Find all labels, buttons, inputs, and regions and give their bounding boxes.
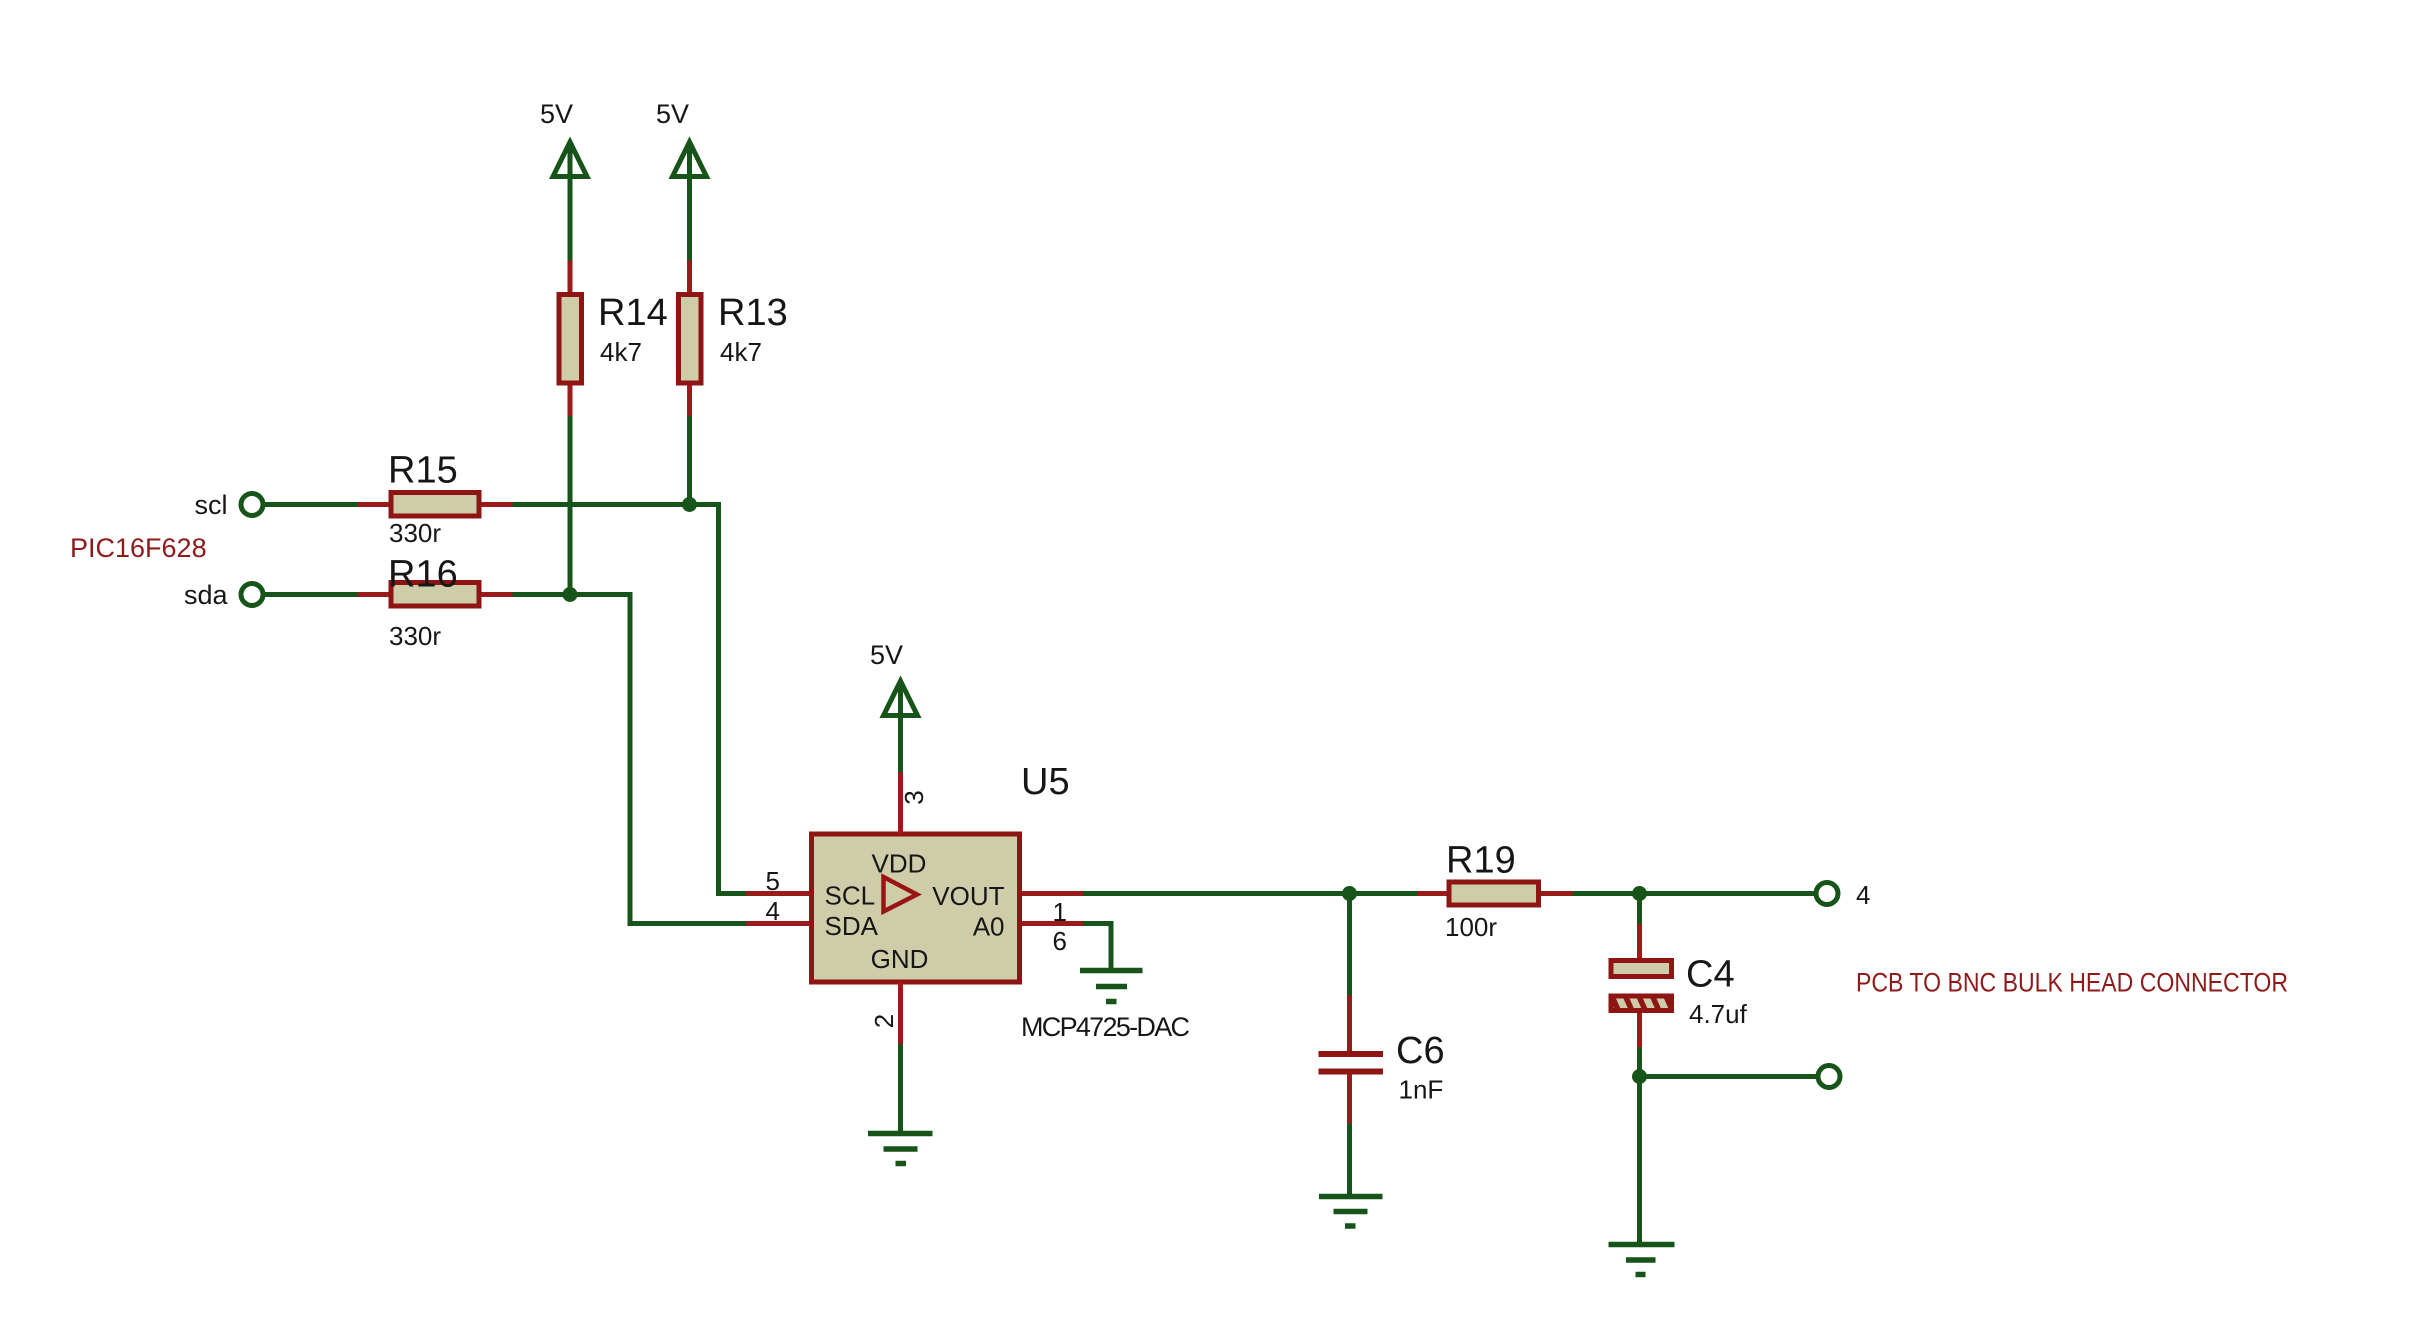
svg-text:R16: R16 xyxy=(388,554,458,596)
resistor R14 bottom pin xyxy=(568,386,573,417)
wire junction to C4 xyxy=(1637,894,1642,925)
capacitor C6 bottom pin xyxy=(1347,1075,1352,1124)
resistor R19 left pin xyxy=(1417,891,1447,896)
svg-text:2: 2 xyxy=(869,1014,899,1028)
node scl junction xyxy=(682,497,697,512)
svg-text:4: 4 xyxy=(766,896,780,926)
capacitor C6 xyxy=(1319,1054,1384,1072)
terminal scl xyxy=(241,494,263,516)
wire node to terminal (BNC shield) xyxy=(1640,1074,1819,1079)
node R19/C4 junction xyxy=(1632,886,1647,901)
svg-text:5V: 5V xyxy=(656,99,689,129)
power 5V symbol P1 (above R14) xyxy=(553,142,587,261)
svg-text:R14: R14 xyxy=(598,292,668,334)
svg-text:R13: R13 xyxy=(718,292,788,334)
resistor R16 left pin xyxy=(358,592,390,597)
wire VOUT to R19 xyxy=(1083,891,1417,896)
ground (U5 GND) xyxy=(868,1134,933,1164)
capacitor C6 top pin xyxy=(1347,996,1352,1052)
resistor R15 right pin xyxy=(482,502,513,507)
wire A0 to ground xyxy=(1083,924,1111,969)
svg-text:4.7uf: 4.7uf xyxy=(1689,999,1748,1029)
wire U5 GND pin to ground xyxy=(898,1045,903,1134)
svg-text:4k7: 4k7 xyxy=(720,337,762,367)
wire sda terminal to R16 xyxy=(264,592,358,597)
wire C6 to ground xyxy=(1347,1124,1352,1197)
node C4/terminal junction xyxy=(1632,1069,1647,1084)
resistor R13 xyxy=(679,295,702,384)
node VOUT/C6 junction xyxy=(1342,886,1357,901)
wire R13 to scl node xyxy=(687,416,692,505)
resistor R13 top pin xyxy=(687,261,692,294)
svg-text:6: 6 xyxy=(1053,926,1067,956)
wire node to ground xyxy=(1637,1077,1642,1245)
power 5V symbol P3 (above U5) xyxy=(884,681,918,772)
op-amp U5 body xyxy=(812,834,1020,982)
resistor R15 left pin xyxy=(358,502,390,507)
U5 pin 6 (A0) xyxy=(1022,921,1083,926)
resistor R13 bottom pin xyxy=(687,386,692,417)
wire scl net to U5 SCL xyxy=(513,505,747,894)
svg-text:SDA: SDA xyxy=(825,911,879,941)
resistor R15 xyxy=(391,493,479,517)
terminal 4 (BNC signal) xyxy=(1816,883,1838,905)
resistor R19 right pin xyxy=(1541,891,1573,896)
capacitor C4 positive plate xyxy=(1611,961,1672,977)
power 5V symbol P2 (above R13) xyxy=(673,142,707,261)
svg-text:PCB TO BNC BULK HEAD CONNECTOR: PCB TO BNC BULK HEAD CONNECTOR xyxy=(1856,968,2288,998)
capacitor C4 negative plate (hatched) xyxy=(1611,996,1672,1011)
svg-text:VDD: VDD xyxy=(872,849,927,879)
wire R14 to sda node xyxy=(568,416,573,595)
terminal (BNC shield) xyxy=(1818,1066,1840,1088)
svg-text:scl: scl xyxy=(195,490,228,520)
wire R19 to terminal 4 xyxy=(1573,891,1816,896)
U5 pin 5 (SCL) xyxy=(746,891,809,896)
wire scl terminal to R15 xyxy=(264,502,358,507)
svg-text:4: 4 xyxy=(1856,880,1870,910)
resistor R14 xyxy=(559,295,582,384)
svg-text:5V: 5V xyxy=(870,640,903,670)
wire junction to C6 xyxy=(1347,894,1352,996)
svg-text:3: 3 xyxy=(899,790,929,804)
svg-text:PIC16F628: PIC16F628 xyxy=(70,533,207,563)
ground (C6) xyxy=(1319,1197,1383,1227)
wire C4 to output node xyxy=(1637,1047,1642,1077)
svg-text:A0: A0 xyxy=(973,912,1005,942)
svg-text:sda: sda xyxy=(184,580,229,610)
svg-text:330r: 330r xyxy=(389,621,441,651)
svg-text:5: 5 xyxy=(766,866,780,896)
node sda junction xyxy=(563,587,578,602)
svg-text:5V: 5V xyxy=(540,99,573,129)
U5 buffer triangle xyxy=(884,877,918,912)
svg-text:R19: R19 xyxy=(1446,840,1516,882)
resistor R16 right pin xyxy=(482,592,513,597)
U5 pin 2 (GND) xyxy=(898,982,903,1045)
svg-text:C4: C4 xyxy=(1686,954,1735,996)
terminal sda xyxy=(241,584,263,606)
svg-text:4k7: 4k7 xyxy=(600,337,642,367)
svg-text:GND: GND xyxy=(871,944,929,974)
svg-text:MCP4725-DAC: MCP4725-DAC xyxy=(1021,1012,1190,1042)
U5 pin 3 (VDD) xyxy=(898,772,903,834)
resistor R19 xyxy=(1449,882,1539,905)
resistor R14 top pin xyxy=(568,261,573,294)
svg-text:R15: R15 xyxy=(388,450,458,492)
capacitor C4 bottom pin xyxy=(1637,1013,1642,1047)
svg-text:1nF: 1nF xyxy=(1399,1075,1444,1105)
svg-text:100r: 100r xyxy=(1445,912,1497,942)
svg-text:SCL: SCL xyxy=(825,881,876,911)
U5 pin 4 (SDA) xyxy=(746,921,809,926)
capacitor C4 top pin xyxy=(1637,924,1642,959)
svg-text:330r: 330r xyxy=(389,518,441,548)
ground (A0) xyxy=(1080,971,1143,1002)
svg-text:C6: C6 xyxy=(1396,1030,1445,1072)
wire sda net to U5 SDA xyxy=(513,595,747,924)
ground (C4) xyxy=(1609,1245,1675,1275)
resistor R16 xyxy=(391,583,479,607)
svg-text:U5: U5 xyxy=(1021,761,1070,803)
U5 pin 1 (VOUT) xyxy=(1022,891,1083,896)
svg-text:VOUT: VOUT xyxy=(932,881,1004,911)
